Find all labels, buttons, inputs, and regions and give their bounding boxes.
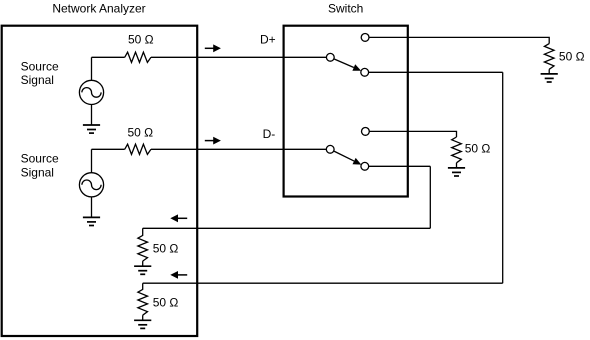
svg-text:50 Ω: 50 Ω [153, 242, 179, 256]
wire V1 to R1 [92, 56, 125, 58]
svg-text:Source: Source [21, 152, 59, 166]
svg-text:Network Analyzer: Network Analyzer [52, 1, 145, 15]
wire SW1 upper throw to R5 [369, 37, 549, 43]
svg-text:Signal: Signal [21, 73, 54, 87]
wire V1 bottom lead [91, 105, 93, 126]
wire return line 1 [143, 227, 431, 229]
ground G3 [134, 266, 151, 274]
switch SW1 arm [334, 59, 361, 71]
svg-text:D-: D- [263, 127, 276, 141]
ground G6 [448, 168, 465, 176]
resistor R6 50 ohm [452, 137, 462, 163]
resistor R1 50 ohm [125, 52, 151, 62]
wire R3 to ground [142, 261, 144, 266]
Switch box [284, 26, 408, 197]
source V1 [79, 80, 103, 104]
resistor R2 50 ohm [125, 144, 151, 154]
switch SW2 pole [326, 145, 334, 153]
arrow return 1 [170, 214, 187, 222]
wire V2 top lead [91, 149, 93, 172]
arrow return 2 [170, 271, 187, 279]
wire SW2 lower throw right [369, 165, 431, 167]
switch SW1 pole [326, 53, 334, 61]
wire V2 to R2 [92, 148, 125, 150]
wire V2 bottom lead [91, 197, 93, 218]
ground G2 [83, 217, 100, 225]
switch SW1 lower throw [361, 68, 369, 76]
wire V1 top lead [91, 57, 93, 80]
source V2 [79, 173, 103, 197]
resistor R4 50 ohm [138, 283, 148, 315]
wire R6 to ground [456, 163, 458, 168]
wire R5 to ground [548, 69, 550, 74]
arrow D+ direction [205, 44, 221, 52]
switch SW2 lower throw [361, 162, 369, 170]
svg-text:Source: Source [21, 59, 59, 73]
wire return line 2 [143, 282, 503, 284]
switch SW2 arm [334, 151, 362, 165]
svg-text:D+: D+ [260, 33, 276, 47]
ground G5 [541, 74, 558, 82]
wire down to return line 1 [429, 166, 431, 228]
resistor R3 50 ohm [138, 228, 148, 261]
wire node down right side [502, 72, 504, 283]
switch SW2 upper throw [362, 127, 370, 135]
switch SW1 upper throw [361, 34, 369, 42]
resistor R5 50 ohm [544, 44, 554, 70]
svg-text:50 Ω: 50 Ω [559, 49, 585, 63]
arrow D- direction [205, 137, 221, 145]
wire R1 to switch pole 1 [151, 56, 326, 58]
svg-text:50 Ω: 50 Ω [128, 33, 154, 47]
svg-text:Signal: Signal [21, 165, 54, 179]
wire SW1 lower throw to node [369, 71, 503, 73]
svg-text:50 Ω: 50 Ω [128, 126, 154, 140]
wire R4 to ground [142, 315, 144, 320]
ground G1 [83, 125, 100, 133]
svg-text:Switch: Switch [328, 1, 363, 15]
wire R2 to switch pole 2 [151, 148, 326, 150]
wire SW2 upper throw to R6 [369, 131, 456, 137]
svg-text:50 Ω: 50 Ω [465, 141, 491, 155]
ground G4 [134, 320, 151, 328]
Network Analyzer box [2, 26, 198, 336]
svg-text:50 Ω: 50 Ω [153, 296, 179, 310]
